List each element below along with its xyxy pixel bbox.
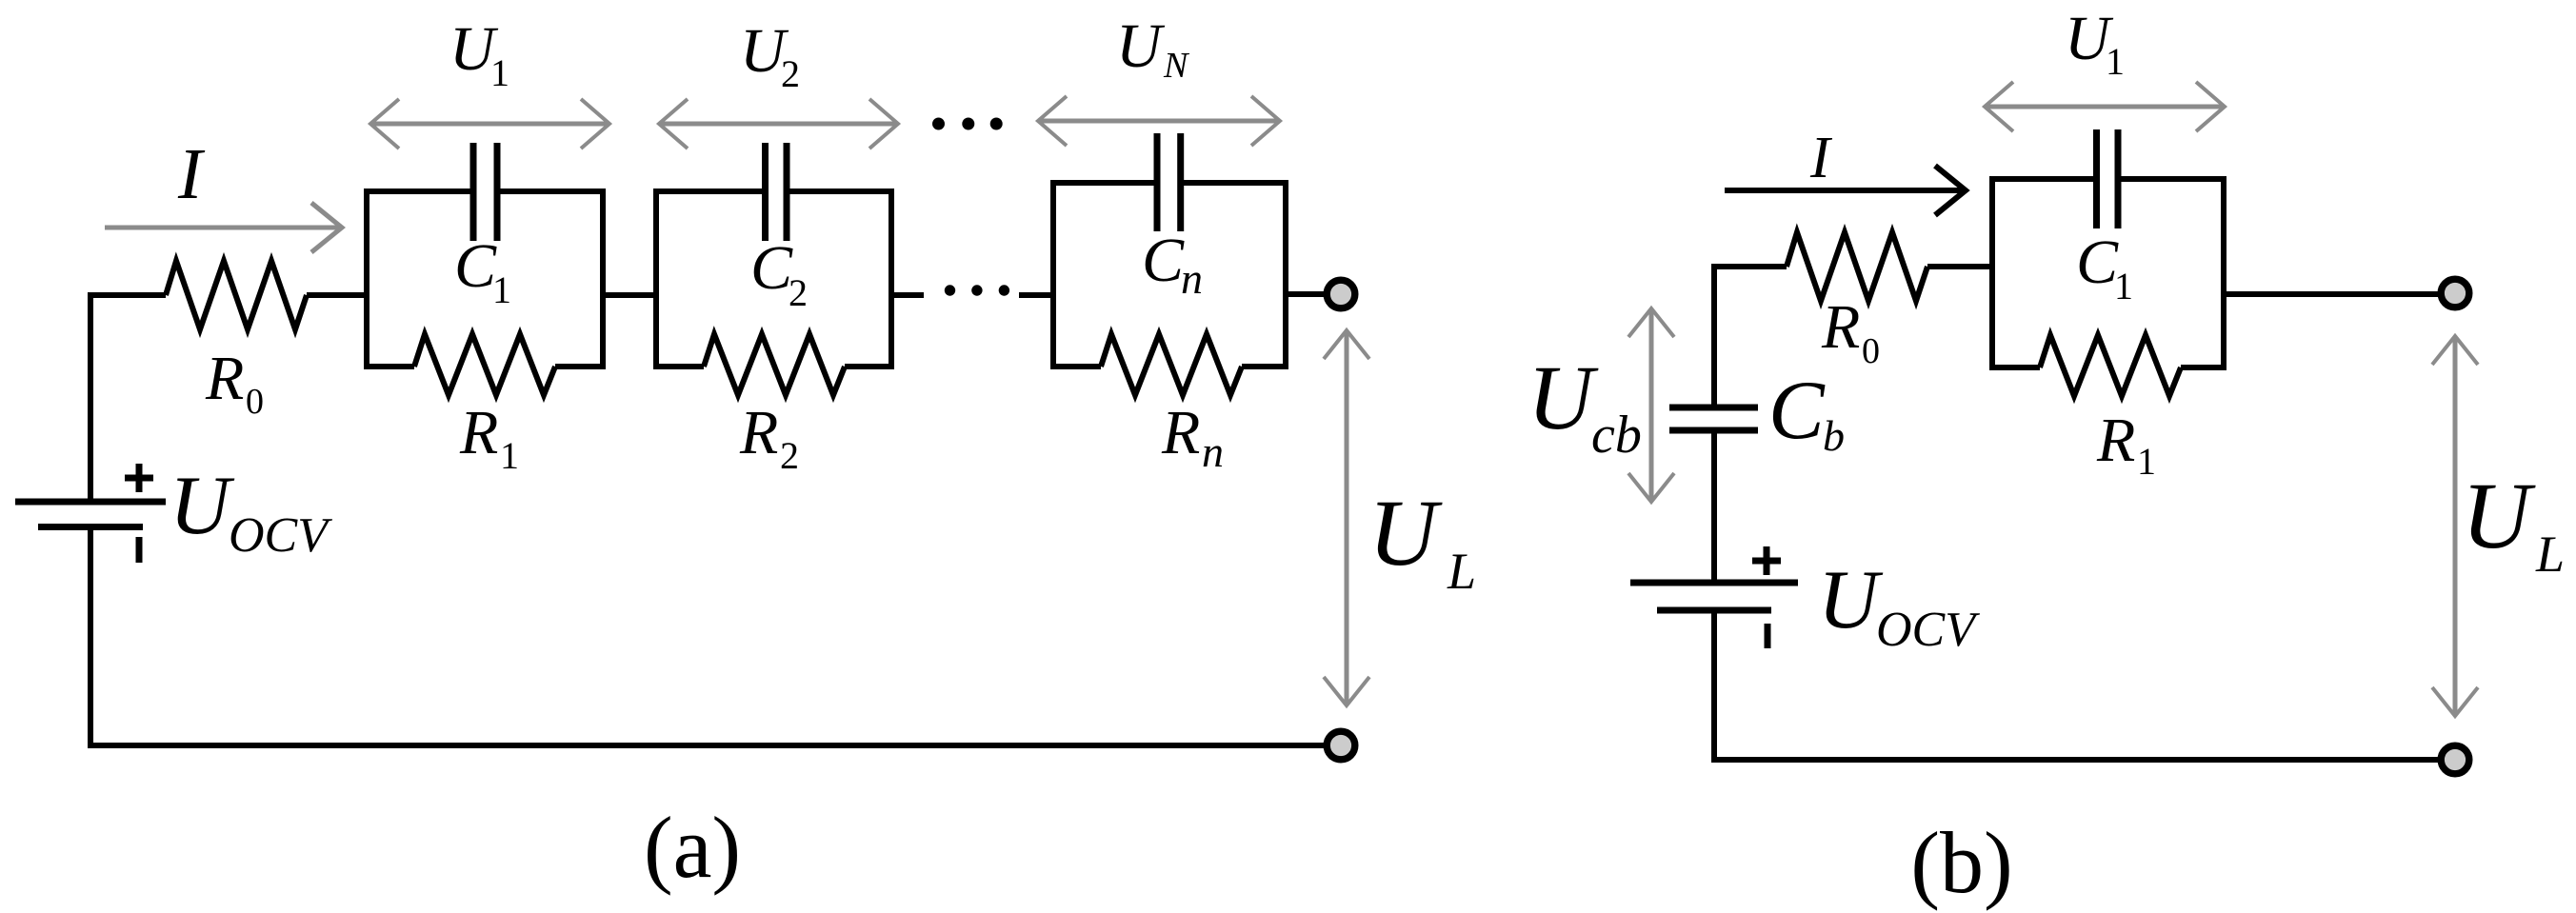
svg-text:R: R — [739, 398, 778, 467]
svg-text:R: R — [205, 344, 244, 413]
svg-text:0: 0 — [246, 382, 264, 422]
svg-text:C: C — [1768, 365, 1826, 457]
svg-text:b: b — [1823, 411, 1845, 460]
svg-text:2: 2 — [789, 271, 808, 314]
svg-text:R: R — [1161, 398, 1200, 467]
svg-text:1: 1 — [500, 434, 519, 477]
svg-text:1: 1 — [2114, 265, 2133, 308]
svg-text:C: C — [750, 233, 793, 303]
svg-text:1: 1 — [490, 51, 509, 94]
svg-text:U: U — [1116, 11, 1166, 81]
svg-text:2: 2 — [780, 434, 799, 477]
svg-text:U: U — [170, 460, 235, 552]
svg-text:N: N — [1163, 46, 1190, 86]
svg-text:L: L — [1447, 543, 1476, 600]
svg-text:cb: cb — [1591, 406, 1642, 465]
svg-text:(b): (b) — [1910, 814, 2012, 911]
svg-text:(a): (a) — [644, 799, 741, 896]
svg-text:U: U — [1528, 347, 1599, 448]
svg-text:1: 1 — [492, 268, 511, 311]
svg-text:R: R — [459, 398, 498, 467]
svg-text:C: C — [1142, 226, 1185, 295]
svg-text:1: 1 — [2106, 40, 2125, 83]
svg-text:n: n — [1181, 254, 1203, 303]
svg-text:R: R — [1821, 292, 1860, 362]
svg-text:1: 1 — [2137, 440, 2156, 483]
svg-text:OCV: OCV — [1876, 603, 1980, 657]
svg-text:R: R — [2096, 406, 2135, 475]
svg-text:OCV: OCV — [229, 508, 332, 563]
svg-text:C: C — [2076, 228, 2119, 297]
svg-text:L: L — [2535, 526, 2565, 583]
svg-text:U: U — [1818, 554, 1884, 646]
svg-text:I: I — [177, 134, 206, 214]
svg-text:U: U — [2462, 463, 2536, 568]
svg-text:C: C — [454, 231, 497, 301]
svg-text:U: U — [1368, 480, 1443, 586]
svg-text:n: n — [1202, 427, 1224, 476]
svg-text:2: 2 — [781, 52, 800, 95]
svg-text:0: 0 — [1862, 331, 1880, 371]
svg-text:I: I — [1809, 126, 1833, 190]
